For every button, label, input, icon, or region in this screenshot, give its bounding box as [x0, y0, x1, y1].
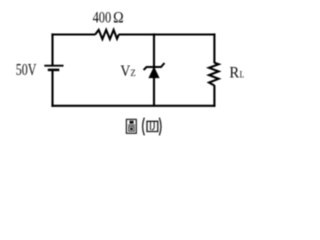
label 400Ω (resistor value)	[93, 10, 124, 27]
svg-text:V: V	[120, 63, 131, 80]
wire top rail right segment	[119, 33, 216, 35]
battery 50V positive plate	[44, 65, 63, 67]
svg-text:400: 400	[93, 10, 112, 27]
wire right branch lower	[213, 85, 215, 107]
svg-text:50V: 50V	[16, 60, 37, 79]
wire right branch upper	[213, 33, 215, 63]
svg-text:R: R	[229, 65, 239, 82]
label Vz (zener voltage)	[120, 63, 136, 80]
wire left branch upper (to battery +)	[51, 33, 53, 65]
wire middle branch (zener)	[153, 33, 155, 105]
caption 四 (four) glyph	[147, 121, 158, 131]
wire left branch lower (battery - to bottom rail)	[51, 70, 53, 107]
wire top rail left segment	[51, 33, 95, 35]
zener diode Vz cathode bar	[144, 63, 165, 70]
wire bottom rail	[51, 105, 215, 107]
caption 圖 (figure) glyph	[126, 119, 136, 133]
zener diode Vz anode triangle	[149, 68, 159, 78]
svg-text:L: L	[240, 70, 245, 81]
caption close parenthesis	[159, 118, 161, 136]
label RL (load resistor)	[229, 65, 244, 82]
battery 50V negative plate	[48, 69, 60, 72]
resistor 400Ω (series)	[95, 30, 119, 39]
resistor RL (load)	[209, 63, 219, 86]
svg-text:Ω: Ω	[113, 10, 124, 27]
svg-text:Z: Z	[130, 68, 136, 79]
label 50V (source value)	[16, 60, 37, 79]
caption open parenthesis	[143, 118, 145, 136]
